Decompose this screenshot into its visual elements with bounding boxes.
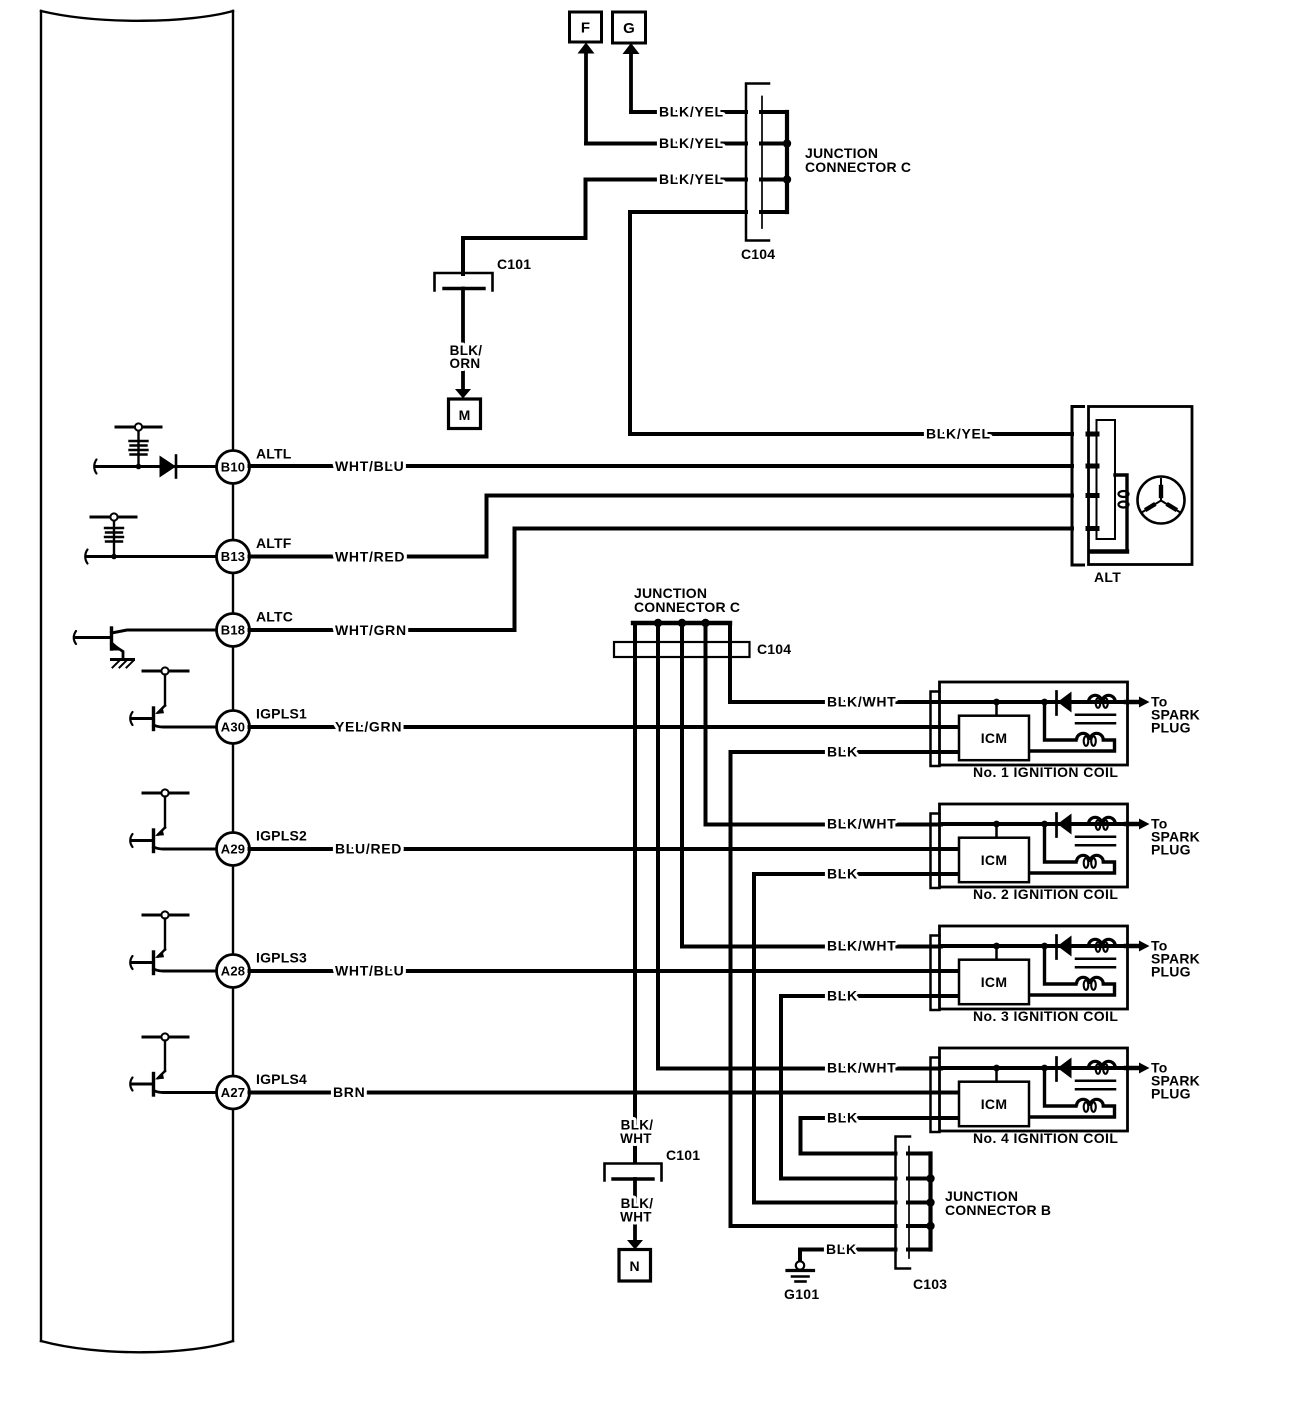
ground (chassis) below Q1 emitter bbox=[112, 658, 134, 661]
ALT pin stub y=528.5 bbox=[1088, 526, 1097, 531]
transistor output stage for IGPLS2 with pull-up bar bbox=[143, 792, 188, 795]
wire bus drop to No.3 coil BLK/WHT bbox=[682, 623, 941, 947]
svg-text:PLUG: PLUG bbox=[1151, 964, 1191, 980]
wire BLK/YEL row 4 (C104 to ALT) bbox=[630, 212, 1072, 434]
transformer core (No.1 coil) bbox=[1076, 713, 1115, 716]
wire ALTF internal bbox=[86, 555, 217, 558]
svg-text:A29: A29 bbox=[221, 842, 245, 857]
wire BLK/WHT to N bbox=[633, 1179, 637, 1240]
output arrow to spark plug (No.1) bbox=[1126, 700, 1140, 705]
svg-text:BLK/WHT: BLK/WHT bbox=[827, 1060, 896, 1076]
node dot to ICM (No.4) bbox=[993, 1065, 1000, 1072]
terminal box G bbox=[613, 12, 646, 43]
ALT pin header rectangle bbox=[1097, 420, 1116, 539]
wire YEL/GRN A30 to No.1 coil bbox=[250, 725, 960, 729]
wire BRN A27 to No.4 coil bbox=[250, 1091, 960, 1095]
ignition coil box No.2 bbox=[940, 804, 1128, 887]
svg-text:IGPLS3: IGPLS3 bbox=[256, 950, 307, 966]
wire bus drop to bottom C101 (BLK/WHT to N) bbox=[633, 623, 637, 1161]
ALT pin stub y=466 bbox=[1088, 464, 1097, 469]
svg-text:BLK: BLK bbox=[827, 866, 858, 882]
svg-text:BLK/WHT: BLK/WHT bbox=[827, 938, 896, 954]
ALT pin stub y=495.5 bbox=[1088, 493, 1097, 498]
ground eyelet bbox=[796, 1261, 804, 1269]
primary winding (No.1 coil) bbox=[1089, 695, 1116, 702]
ECM pin B13 (ALTF) bbox=[217, 540, 250, 573]
svg-text:BLK/YEL: BLK/YEL bbox=[926, 426, 991, 442]
ECM pin A30 (IGPLS1) bbox=[217, 711, 250, 744]
output arrow to spark plug (No.2) bbox=[1126, 822, 1140, 827]
ECM pin A29 (IGPLS2) bbox=[217, 833, 250, 866]
svg-text:C104: C104 bbox=[757, 641, 791, 657]
terminal box N bbox=[619, 1250, 651, 1282]
svg-text:BLK: BLK bbox=[826, 1241, 857, 1257]
ignition coil box No.3 bbox=[940, 926, 1128, 1009]
wire BLK from No.4 coil down to C103 row1 bbox=[801, 1118, 960, 1154]
diode D (ALTL line) bbox=[160, 456, 177, 478]
wire: coil No.4 internal top rail bbox=[941, 1066, 1126, 1070]
svg-text:F: F bbox=[581, 20, 590, 37]
resistor pull-up for ALTF (B13) bbox=[91, 516, 136, 519]
svg-text:BLU/RED: BLU/RED bbox=[335, 841, 402, 857]
svg-text:WHT/RED: WHT/RED bbox=[335, 549, 405, 565]
transistor output stage for IGPLS1 with pull-up bar bbox=[143, 670, 188, 673]
diode (No.3 coil) bbox=[1055, 936, 1058, 959]
ALT connector bracket bbox=[1072, 407, 1084, 566]
junction connector C104 (middle) body strip bbox=[614, 642, 750, 657]
secondary winding (No.2 coil) bbox=[1045, 824, 1077, 862]
svg-text:No. 4 IGNITION COIL: No. 4 IGNITION COIL bbox=[973, 1130, 1118, 1146]
transistor Q1 driver for ALTC (B18) bbox=[110, 628, 113, 649]
svg-text:ORN: ORN bbox=[450, 356, 481, 371]
svg-text:M: M bbox=[459, 407, 471, 423]
svg-text:C103: C103 bbox=[913, 1276, 947, 1292]
ICM module (No.2 coil) bbox=[959, 838, 1029, 883]
svg-text:PLUG: PLUG bbox=[1151, 1086, 1191, 1102]
svg-text:BLK/YEL: BLK/YEL bbox=[659, 171, 724, 187]
svg-text:C101: C101 bbox=[666, 1147, 700, 1163]
primary winding (No.3 coil) bbox=[1089, 939, 1116, 946]
node dot row3 on C104 bus bbox=[783, 175, 791, 183]
ALT box bbox=[1089, 407, 1193, 565]
wire BLK from No.3 coil down to C103 row2 bbox=[781, 996, 959, 1179]
ignition coil connector bracket (No.3) bbox=[931, 936, 940, 1011]
svg-text:ICM: ICM bbox=[981, 974, 1008, 990]
wire: coil No.2 internal top rail bbox=[941, 822, 1126, 826]
node dot to secondary (No.3) bbox=[1041, 943, 1048, 950]
svg-text:IGPLS4: IGPLS4 bbox=[256, 1071, 307, 1087]
node dot to secondary (No.2) bbox=[1041, 821, 1048, 828]
ignition coil box No.4 bbox=[940, 1048, 1128, 1131]
wire bus drop to No.2 coil BLK/WHT bbox=[706, 623, 942, 825]
wire from Q5 emitter to pin bbox=[164, 1091, 217, 1094]
ALT pin stub y=434 bbox=[1088, 432, 1097, 437]
wire: coil No.3 internal top rail bbox=[941, 944, 1126, 948]
svg-text:B18: B18 bbox=[221, 623, 245, 638]
svg-text:BLK/WHT: BLK/WHT bbox=[827, 694, 896, 710]
node: resistor joins ALTL wire bbox=[136, 464, 142, 470]
terminal box M bbox=[449, 399, 481, 429]
ground G101 symbol bbox=[787, 1269, 814, 1272]
diode (No.1 coil) bbox=[1055, 692, 1058, 715]
wire BLU/RED A29 to No.2 coil bbox=[250, 847, 960, 851]
svg-text:C101: C101 bbox=[497, 256, 531, 272]
svg-text:BLK: BLK bbox=[827, 744, 858, 760]
svg-text:WHT/GRN: WHT/GRN bbox=[335, 622, 407, 638]
in-line connector C101 (top) bbox=[435, 273, 493, 291]
junction connector C104 (middle) bus bar bbox=[633, 621, 730, 625]
junction connector C103 inner contact line bbox=[908, 1147, 910, 1259]
wire from Q3 emitter to pin bbox=[164, 848, 217, 851]
svg-text:C104: C104 bbox=[741, 246, 775, 262]
wire/arrow up into G (BLK/YEL row 1) bbox=[629, 53, 633, 112]
ALT generator symbol (3-phase windings) bbox=[1138, 477, 1185, 524]
wire BLK/YEL row 3 (down to C101) bbox=[463, 180, 746, 275]
svg-text:WHT: WHT bbox=[620, 1210, 652, 1225]
junction connector C104 (top) bus bar bbox=[785, 112, 789, 212]
ECM pin A27 (IGPLS4) bbox=[217, 1076, 250, 1109]
transistor output stage for IGPLS4 with pull-up bar bbox=[143, 1036, 188, 1039]
node dots on middle C104 bus bbox=[654, 619, 662, 627]
wire BLK/ORN down to M bbox=[461, 289, 465, 390]
node dot to secondary (No.4) bbox=[1041, 1065, 1048, 1072]
wire bus drop to No.1 coil BLK/WHT bbox=[730, 623, 941, 702]
ECM pin B18 (ALTC) bbox=[217, 614, 250, 647]
svg-text:BLK: BLK bbox=[827, 988, 858, 1004]
svg-text:WHT/BLU: WHT/BLU bbox=[335, 963, 404, 979]
ECM pin B10 (ALTL) bbox=[217, 451, 250, 484]
svg-text:G101: G101 bbox=[784, 1286, 819, 1302]
ICM module (No.4 coil) bbox=[959, 1082, 1029, 1127]
svg-text:BLK/WHT: BLK/WHT bbox=[827, 816, 896, 832]
wire ALTL internal bbox=[95, 465, 217, 468]
svg-text:A30: A30 bbox=[221, 720, 245, 735]
svg-text:ICM: ICM bbox=[981, 852, 1008, 868]
secondary winding (No.4 coil) bbox=[1045, 1068, 1077, 1106]
node dot to secondary (No.1) bbox=[1041, 699, 1048, 706]
wire WHT/RED from B13 to ALT (jog up at x486) bbox=[250, 496, 1073, 557]
resistor pull-up for ALTL (B10) bbox=[116, 426, 161, 429]
svg-text:WHT: WHT bbox=[620, 1131, 652, 1146]
svg-text:IGPLS1: IGPLS1 bbox=[256, 706, 307, 722]
svg-text:ICM: ICM bbox=[981, 730, 1008, 746]
output arrow to spark plug (No.3) bbox=[1126, 944, 1140, 949]
ignition coil connector bracket (No.1) bbox=[931, 692, 940, 767]
svg-text:ALTF: ALTF bbox=[256, 535, 292, 551]
svg-text:BLK: BLK bbox=[827, 1110, 858, 1126]
transformer core (No.2 coil) bbox=[1076, 835, 1115, 838]
wire BLK/YEL row 2 (to F) bbox=[586, 142, 746, 146]
svg-text:No. 1 IGNITION COIL: No. 1 IGNITION COIL bbox=[973, 764, 1118, 780]
ALT field coil (rotor winding) bbox=[1115, 475, 1127, 552]
wire BLK/YEL row 1 (to G) bbox=[631, 110, 746, 114]
node dots on C103 bus bbox=[926, 1174, 934, 1182]
ECM body right edge / pin rail bbox=[232, 11, 234, 1341]
diode (No.4 coil) bbox=[1055, 1058, 1058, 1081]
svg-text:No. 3 IGNITION COIL: No. 3 IGNITION COIL bbox=[973, 1008, 1118, 1024]
primary winding (No.4 coil) bbox=[1089, 1061, 1116, 1068]
svg-text:BLK/YEL: BLK/YEL bbox=[659, 135, 724, 151]
node: resistor joins ALTF wire bbox=[111, 554, 117, 560]
junction connector C103 bus bar bbox=[928, 1154, 932, 1250]
wire bus drop to No.4 coil BLK/WHT bbox=[658, 623, 941, 1069]
svg-text:BLK/YEL: BLK/YEL bbox=[659, 104, 724, 120]
terminal box F bbox=[570, 12, 602, 42]
wire WHT/BLU A28 to No.3 coil bbox=[250, 969, 960, 973]
svg-text:B13: B13 bbox=[221, 549, 245, 564]
node dot to ICM (No.3) bbox=[993, 943, 1000, 950]
diode (No.2 coil) bbox=[1055, 814, 1058, 837]
junction connector C104 (top) outer bracket bbox=[746, 84, 769, 241]
ECM pin A28 (IGPLS3) bbox=[217, 955, 250, 988]
in-line connector C101 (bottom) bbox=[605, 1164, 662, 1181]
svg-text:WHT/BLU: WHT/BLU bbox=[335, 458, 404, 474]
svg-text:N: N bbox=[629, 1258, 639, 1274]
wire: coil No.1 internal top rail bbox=[941, 700, 1126, 704]
ignition coil box No.1 bbox=[940, 682, 1128, 765]
node dot row2 on C104 bus bbox=[783, 139, 791, 147]
ignition coil connector bracket (No.2) bbox=[931, 814, 940, 889]
wire BLK from No.1 coil down to C103 row4 bbox=[731, 752, 960, 1226]
ignition coil connector bracket (No.4) bbox=[931, 1058, 940, 1133]
svg-text:G: G bbox=[623, 20, 635, 37]
wire/arrow up into F (BLK/YEL row 2) bbox=[584, 52, 588, 144]
secondary winding (No.3 coil) bbox=[1045, 946, 1077, 984]
wire from Q2 emitter to pin bbox=[164, 726, 217, 729]
svg-text:B10: B10 bbox=[221, 460, 245, 475]
svg-text:A28: A28 bbox=[221, 964, 245, 979]
svg-text:IGPLS2: IGPLS2 bbox=[256, 828, 307, 844]
wire BLK from No.2 coil down to C103 row3 bbox=[754, 874, 959, 1203]
transistor output stage for IGPLS3 with pull-up bar bbox=[143, 914, 188, 917]
wire WHT/BLU from B10 to ALT bbox=[250, 464, 1073, 468]
svg-text:PLUG: PLUG bbox=[1151, 720, 1191, 736]
wire BLK from C103 to ground bbox=[908, 1248, 931, 1252]
node dot to ICM (No.1) bbox=[993, 699, 1000, 706]
svg-text:BRN: BRN bbox=[333, 1084, 365, 1100]
svg-text:ALTC: ALTC bbox=[256, 609, 293, 625]
svg-text:PLUG: PLUG bbox=[1151, 842, 1191, 858]
svg-text:ALTL: ALTL bbox=[256, 446, 292, 462]
secondary winding (No.1 coil) bbox=[1045, 702, 1077, 740]
svg-text:ICM: ICM bbox=[981, 1096, 1008, 1112]
output arrow to spark plug (No.4) bbox=[1126, 1066, 1140, 1071]
junction connector C103 outer bracket bbox=[896, 1137, 911, 1269]
primary winding (No.2 coil) bbox=[1089, 817, 1116, 824]
svg-text:ALT: ALT bbox=[1094, 569, 1121, 585]
svg-text:CONNECTOR C: CONNECTOR C bbox=[805, 159, 911, 175]
transformer core (No.4 coil) bbox=[1076, 1079, 1115, 1082]
transformer core (No.3 coil) bbox=[1076, 957, 1115, 960]
ICM module (No.1 coil) bbox=[959, 716, 1029, 761]
svg-text:YEL/GRN: YEL/GRN bbox=[335, 719, 402, 735]
ICM module (No.3 coil) bbox=[959, 960, 1029, 1005]
svg-text:No. 2 IGNITION COIL: No. 2 IGNITION COIL bbox=[973, 886, 1118, 902]
node dot to ICM (No.2) bbox=[993, 821, 1000, 828]
wire from Q4 emitter to pin bbox=[164, 970, 217, 973]
ECM/PCM body outline (torn-edge box) bbox=[41, 11, 233, 21]
svg-text:CONNECTOR B: CONNECTOR B bbox=[945, 1202, 1051, 1218]
wire WHT/GRN from B18 to ALT (jog up at x515) bbox=[250, 529, 1073, 631]
junction connector C104 (top) inner contact line bbox=[761, 97, 763, 229]
svg-text:A27: A27 bbox=[221, 1085, 245, 1100]
svg-text:CONNECTOR C: CONNECTOR C bbox=[634, 599, 740, 615]
